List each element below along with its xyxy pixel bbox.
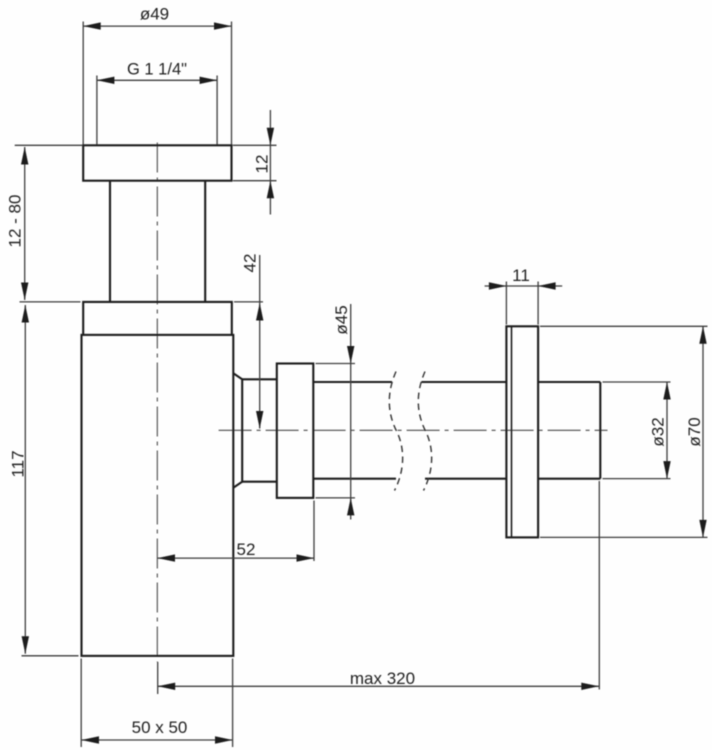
svg-text:ø49: ø49	[140, 5, 169, 24]
svg-text:117: 117	[9, 450, 28, 477]
svg-text:max 320: max 320	[350, 669, 415, 688]
svg-text:12: 12	[253, 155, 272, 174]
svg-text:42: 42	[241, 254, 260, 273]
svg-text:12 - 80: 12 - 80	[6, 195, 25, 248]
svg-text:ø45: ø45	[332, 305, 351, 334]
svg-text:52: 52	[237, 540, 256, 559]
svg-text:ø70: ø70	[685, 417, 704, 446]
svg-text:11: 11	[512, 266, 530, 285]
svg-text:ø32: ø32	[649, 417, 668, 446]
svg-text:50 x 50: 50 x 50	[132, 718, 188, 737]
svg-text:G 1 1/4": G 1 1/4"	[127, 61, 187, 79]
